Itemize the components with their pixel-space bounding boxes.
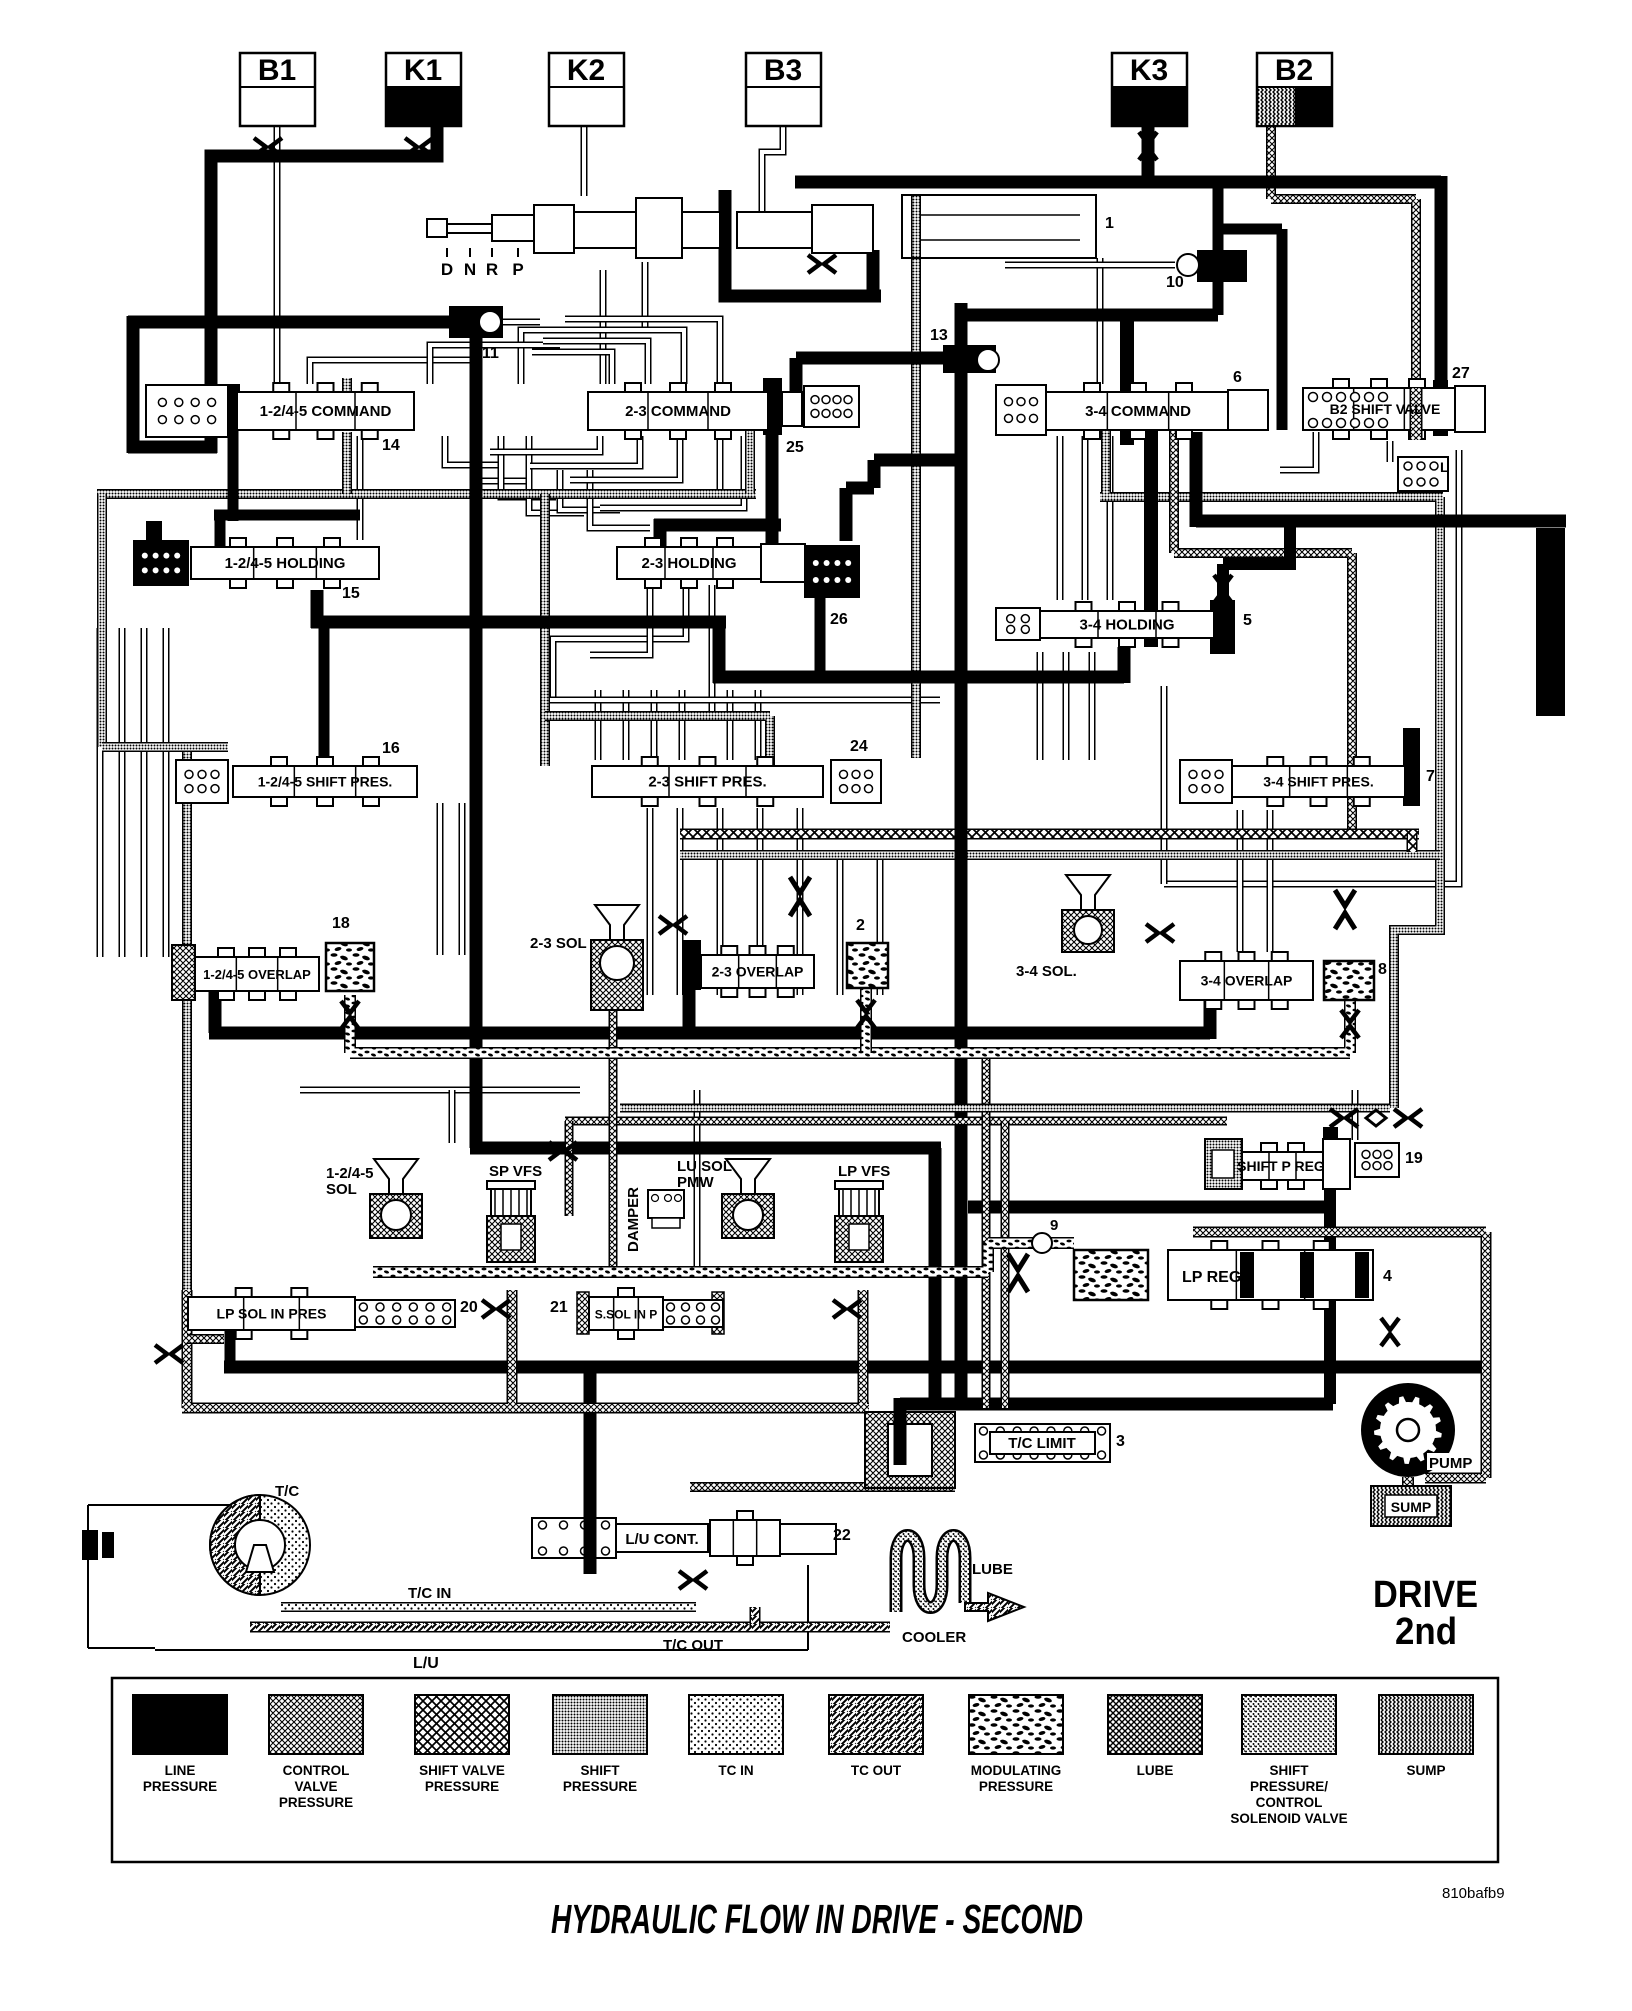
svg-text:B3: B3 (764, 54, 802, 87)
svg-text:3: 3 (1116, 1433, 1125, 1450)
svg-text:1: 1 (1105, 215, 1114, 232)
svg-text:SP VFS: SP VFS (489, 1163, 542, 1180)
svg-text:PRESSURE/: PRESSURE/ (1250, 1779, 1328, 1794)
svg-text:D: D (441, 260, 453, 279)
svg-text:PRESSURE: PRESSURE (563, 1779, 637, 1794)
svg-text:LINE: LINE (165, 1763, 196, 1778)
svg-text:26: 26 (830, 611, 848, 628)
svg-text:DAMPER: DAMPER (625, 1187, 642, 1252)
svg-text:4: 4 (1383, 1268, 1392, 1285)
svg-text:K3: K3 (1130, 54, 1168, 87)
svg-text:T/C LIMIT: T/C LIMIT (1008, 1435, 1076, 1452)
svg-text:N: N (464, 260, 476, 279)
svg-text:11: 11 (482, 345, 499, 362)
svg-text:PMW: PMW (677, 1174, 715, 1191)
svg-text:LP SOL IN PRES: LP SOL IN PRES (217, 1306, 327, 1322)
svg-text:TC OUT: TC OUT (851, 1763, 902, 1778)
svg-text:LUBE: LUBE (1137, 1763, 1174, 1778)
svg-text:S.SOL IN P: S.SOL IN P (595, 1308, 657, 1322)
svg-text:DRIVE: DRIVE (1373, 1574, 1478, 1616)
svg-text:3-4 HOLDING: 3-4 HOLDING (1079, 617, 1174, 634)
svg-text:L/U: L/U (413, 1655, 439, 1672)
svg-text:3-4 COMMAND: 3-4 COMMAND (1085, 403, 1191, 420)
svg-text:24: 24 (850, 738, 868, 755)
svg-text:SOLENOID VALVE: SOLENOID VALVE (1230, 1811, 1347, 1826)
svg-text:13: 13 (930, 327, 948, 344)
svg-text:1-2/4-5 OVERLAP: 1-2/4-5 OVERLAP (203, 967, 311, 982)
svg-text:22: 22 (833, 1527, 851, 1544)
svg-text:B2: B2 (1275, 54, 1313, 87)
svg-text:2nd: 2nd (1395, 1611, 1457, 1653)
svg-text:6: 6 (1233, 369, 1242, 386)
svg-text:CONTROL: CONTROL (1256, 1795, 1323, 1810)
svg-text:P: P (512, 260, 523, 279)
svg-text:HYDRAULIC FLOW IN DRIVE - SECO: HYDRAULIC FLOW IN DRIVE - SECOND (551, 1896, 1083, 1942)
svg-text:TC IN: TC IN (718, 1763, 753, 1778)
svg-text:SHIFT VALVE: SHIFT VALVE (419, 1763, 505, 1778)
svg-text:18: 18 (332, 915, 350, 932)
svg-text:PRESSURE: PRESSURE (425, 1779, 499, 1794)
svg-text:K1: K1 (404, 54, 442, 87)
svg-text:2-3 HOLDING: 2-3 HOLDING (641, 555, 736, 572)
svg-text:LP REG.: LP REG. (1182, 1269, 1246, 1286)
svg-text:16: 16 (382, 740, 400, 757)
svg-text:20: 20 (460, 1299, 478, 1316)
svg-text:10: 10 (1166, 274, 1184, 291)
svg-text:14: 14 (382, 437, 400, 454)
svg-text:LP VFS: LP VFS (838, 1163, 890, 1180)
svg-text:T/C OUT: T/C OUT (663, 1637, 723, 1654)
svg-text:2-3 SOL: 2-3 SOL (530, 935, 587, 952)
svg-text:LUBE: LUBE (972, 1561, 1013, 1578)
svg-text:25: 25 (786, 439, 804, 456)
svg-text:L/U CONT.: L/U CONT. (625, 1531, 698, 1548)
svg-text:810bafb9: 810bafb9 (1442, 1885, 1505, 1902)
svg-text:COOLER: COOLER (902, 1629, 966, 1646)
svg-text:15: 15 (342, 585, 360, 602)
svg-text:8: 8 (1378, 961, 1387, 978)
svg-text:1-2/4-5 HOLDING: 1-2/4-5 HOLDING (225, 555, 346, 572)
svg-text:SHIFT: SHIFT (581, 1763, 621, 1778)
svg-text:SUMP: SUMP (1391, 1499, 1431, 1515)
svg-text:3-4 SOL.: 3-4 SOL. (1016, 963, 1077, 980)
svg-text:T/C IN: T/C IN (408, 1585, 451, 1602)
svg-text:VALVE: VALVE (294, 1779, 337, 1794)
svg-text:R: R (486, 260, 498, 279)
svg-text:5: 5 (1243, 612, 1252, 629)
svg-text:9: 9 (1050, 1217, 1058, 1234)
svg-text:19: 19 (1405, 1150, 1423, 1167)
svg-text:3-4 OVERLAP: 3-4 OVERLAP (1201, 973, 1293, 989)
svg-text:PRESSURE: PRESSURE (143, 1779, 217, 1794)
svg-text:LU SOL: LU SOL (677, 1158, 732, 1175)
svg-text:7: 7 (1426, 768, 1435, 785)
svg-text:T/C: T/C (275, 1483, 299, 1500)
svg-text:SHIFT P REG: SHIFT P REG (1237, 1158, 1325, 1174)
svg-text:2: 2 (856, 917, 865, 934)
svg-text:CONTROL: CONTROL (283, 1763, 350, 1778)
svg-text:27: 27 (1452, 365, 1470, 382)
svg-text:L: L (1440, 459, 1449, 475)
svg-text:SUMP: SUMP (1406, 1763, 1445, 1778)
svg-text:PRESSURE: PRESSURE (979, 1779, 1053, 1794)
svg-text:1-2/4-5 COMMAND: 1-2/4-5 COMMAND (260, 403, 392, 420)
svg-text:21: 21 (550, 1299, 568, 1316)
svg-text:B1: B1 (258, 54, 296, 87)
svg-text:2-3 OVERLAP: 2-3 OVERLAP (712, 964, 804, 980)
svg-text:1-2/4-5: 1-2/4-5 (326, 1165, 374, 1182)
svg-text:2-3 COMMAND: 2-3 COMMAND (625, 403, 731, 420)
svg-text:SOL: SOL (326, 1181, 357, 1198)
svg-text:PRESSURE: PRESSURE (279, 1795, 353, 1810)
svg-text:1-2/4-5 SHIFT PRES.: 1-2/4-5 SHIFT PRES. (258, 774, 393, 790)
svg-text:2-3 SHIFT PRES.: 2-3 SHIFT PRES. (648, 774, 766, 791)
svg-text:B2 SHIFT VALVE: B2 SHIFT VALVE (1330, 401, 1441, 417)
svg-text:PUMP: PUMP (1429, 1455, 1472, 1472)
svg-text:MODULATING: MODULATING (971, 1763, 1062, 1778)
svg-text:3-4 SHIFT PRES.: 3-4 SHIFT PRES. (1263, 774, 1373, 790)
svg-text:K2: K2 (567, 54, 605, 87)
svg-text:SHIFT: SHIFT (1270, 1763, 1310, 1778)
